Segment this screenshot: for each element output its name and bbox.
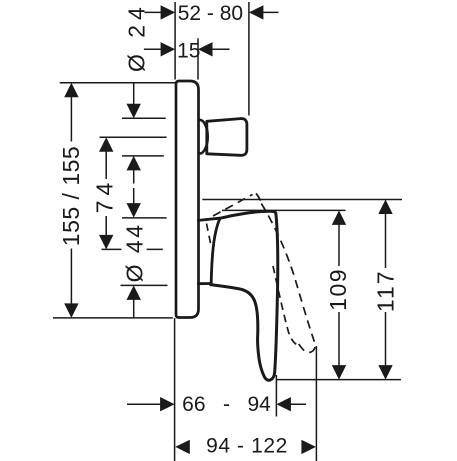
wire extension line 74 bottom right segment (y=249.4) xyxy=(147,248,163,250)
wire extension line sleeve top (y=217.9) xyxy=(122,217,167,219)
arrowhead dim 74 bottom xyxy=(99,235,113,250)
wire dim 109 stem lower xyxy=(338,312,340,366)
wire dim 155 stem upper xyxy=(70,96,72,141)
wire extension line plate bottom (y=317.9) xyxy=(53,317,173,319)
wire dim 52-80 right tail xyxy=(262,11,278,13)
arrowhead dim 52-80 right xyxy=(249,5,264,19)
wire dim 155 stem lower xyxy=(70,249,72,305)
wire extension line dashed-lever tip (x=316.4) xyxy=(315,346,317,461)
svg-text:52 - 80: 52 - 80 xyxy=(178,2,243,25)
wire dim 15 right tail xyxy=(212,48,230,50)
wire dim 52-80 left tail xyxy=(145,11,162,13)
wire dim dia44 bottom stem xyxy=(133,299,135,318)
wire extension line dashed lever top (y=199.5) xyxy=(202,199,402,201)
svg-text:117: 117 xyxy=(372,269,398,312)
arrowhead dim dia24 bottom xyxy=(127,156,141,171)
wire dim 66-94 left tail xyxy=(127,403,161,405)
arrowhead dim dia44 bottom xyxy=(127,285,141,300)
wire extension line sleeve bottom (y=285.4) xyxy=(121,284,168,286)
knob body xyxy=(207,119,247,156)
dashed lever left edge xyxy=(207,224,212,246)
svg-text:94 - 122: 94 - 122 xyxy=(206,434,288,457)
svg-text:155 / 155: 155 / 155 xyxy=(58,146,84,246)
sleeve top edge xyxy=(198,218,219,220)
wire extension line plate top (y=82.7) xyxy=(60,82,175,84)
dashed lever inner edge xyxy=(273,266,296,344)
wire extension line lever bottom (y=378.3) xyxy=(277,379,402,381)
wire dim 74 stem upper xyxy=(105,151,107,179)
svg-text:Ø 44: Ø 44 xyxy=(121,222,147,282)
lever blade left edge xyxy=(211,218,220,282)
arrowhead dim 109 bottom xyxy=(332,365,346,380)
wire extension line 74 bottom left segment (y=249.4) xyxy=(102,248,122,250)
arrowhead dim dia24 top xyxy=(127,104,141,119)
wire dim 109 stem upper xyxy=(338,224,340,266)
svg-text:15: 15 xyxy=(177,40,200,63)
dashed lever outer edge xyxy=(261,204,315,353)
svg-text:Ø 24: Ø 24 xyxy=(123,2,149,72)
wire dim 15 left tail xyxy=(144,48,162,50)
svg-text:66 - 94: 66 - 94 xyxy=(182,393,271,416)
svg-text:109: 109 xyxy=(325,268,351,311)
wire extension line lever front bottom (x=276.4) xyxy=(275,375,277,417)
arrowhead dim dia44 top xyxy=(127,203,141,218)
arrowhead dim 94-122 left xyxy=(175,440,190,454)
knob base bump xyxy=(200,120,208,154)
wire extension line wall top (x=175) xyxy=(174,2,176,80)
arrowhead dim 155 top xyxy=(64,83,78,98)
wire dim dia24 bottom stem lower xyxy=(133,188,135,204)
arrowhead dim 52-80 left xyxy=(161,5,176,19)
arrowhead dim 15 right xyxy=(198,42,213,56)
arrowhead dim 66-94 left xyxy=(160,397,175,411)
arrowhead dim 117 bottom xyxy=(378,365,392,380)
wire extension line 74 top (y=137.3) xyxy=(100,136,167,138)
escutcheon wall plate xyxy=(176,81,199,318)
arrowhead dim 117 top xyxy=(378,200,392,215)
arrowhead dim 94-122 right xyxy=(301,440,316,454)
wire dim 66-94 right tail xyxy=(290,403,306,405)
wire extension line plate front top (x=198) xyxy=(197,38,199,79)
wire extension line knob bottom (y=155.9) xyxy=(122,155,164,157)
arrowhead dim 66-94 right xyxy=(276,397,291,411)
wire extension line lever top (y=210.4) xyxy=(222,209,346,211)
svg-text:74: 74 xyxy=(92,178,118,214)
lever body outline xyxy=(211,211,278,380)
wire dim dia24 top stem xyxy=(133,83,135,105)
wire extension line knob top (y=118.3) xyxy=(122,117,166,119)
wire dim dia24 bottom stem upper xyxy=(133,169,135,183)
arrowhead dim 74 top xyxy=(99,137,113,152)
arrowhead dim 109 top xyxy=(332,210,346,225)
sleeve bottom edge xyxy=(198,282,210,285)
dashed lever top edge xyxy=(213,194,262,217)
wire dim 74 stem lower xyxy=(105,216,107,236)
wire extension line knob tip (x=249) xyxy=(248,2,250,116)
wire dim 117 stem upper xyxy=(385,213,387,268)
arrowhead dim 15 left xyxy=(161,42,176,56)
arrowhead dim 155 bottom xyxy=(64,303,78,318)
wire extension line wall bottom (x=174.6) xyxy=(174,318,176,461)
wire dim 117 stem lower xyxy=(385,312,387,366)
